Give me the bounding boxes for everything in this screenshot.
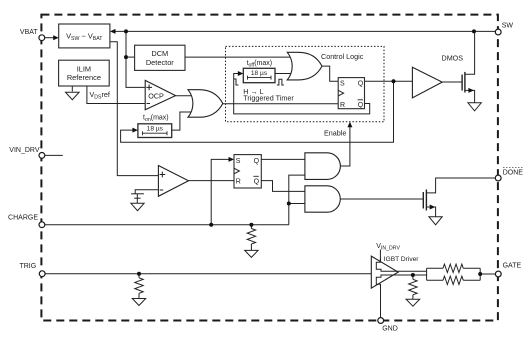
svg-text:IGBT Driver: IGBT Driver: [384, 256, 419, 263]
svg-text:R: R: [340, 102, 345, 109]
svg-text:Triggered Timer: Triggered Timer: [243, 93, 294, 102]
svg-text:Detector: Detector: [146, 58, 174, 67]
svg-text:SW: SW: [502, 23, 514, 30]
svg-text:Q: Q: [254, 158, 260, 165]
svg-text:18 µs: 18 µs: [147, 125, 164, 132]
svg-text:GND: GND: [382, 326, 398, 333]
svg-text:VBAT: VBAT: [20, 29, 38, 36]
svg-text:Q: Q: [254, 178, 260, 185]
svg-text:TRIG: TRIG: [19, 263, 36, 270]
svg-text:DCM: DCM: [151, 49, 168, 58]
svg-text:OCP: OCP: [148, 91, 164, 100]
svg-text:GATE: GATE: [503, 263, 522, 270]
svg-text:CHARGE: CHARGE: [8, 215, 38, 222]
svg-text:S: S: [340, 81, 345, 88]
svg-text:Reference: Reference: [67, 73, 101, 82]
svg-text:DMOS: DMOS: [442, 53, 464, 62]
svg-text:18 µs: 18 µs: [251, 70, 268, 77]
svg-text:S: S: [236, 158, 241, 165]
svg-text:Control Logic: Control Logic: [321, 52, 364, 61]
svg-text:Enable: Enable: [324, 128, 346, 137]
svg-text:VIN_DRV: VIN_DRV: [9, 147, 40, 154]
svg-text:Q: Q: [358, 102, 364, 109]
svg-text:R: R: [236, 178, 241, 185]
svg-text:DONE: DONE: [503, 170, 524, 177]
svg-text:Q: Q: [358, 81, 364, 88]
